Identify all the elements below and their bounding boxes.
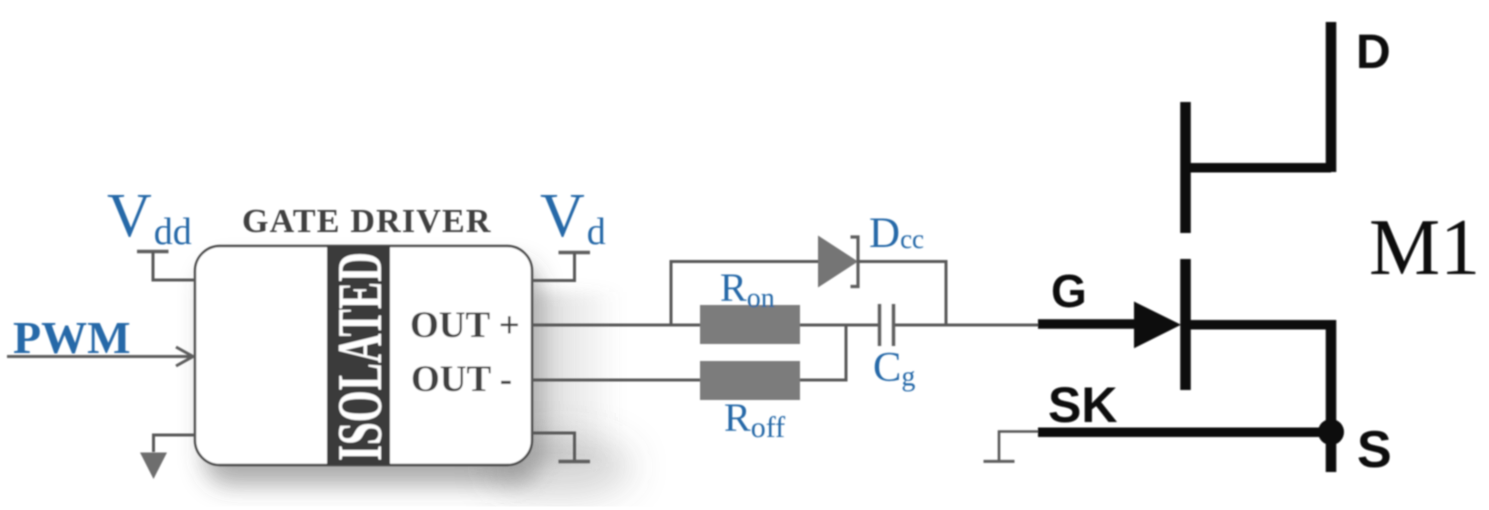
gate driver U1 body [195,246,532,465]
wire source horizontal [1181,320,1331,330]
diode Dcc cathode bracket [851,237,859,287]
svg-text:Cg: Cg [873,344,915,393]
wire SK kelvin source [1038,428,1331,438]
svg-text:OUT +: OUT + [410,305,520,346]
wire drain lead [1326,22,1337,172]
svg-text:ISOLATED: ISOLATED [324,252,395,461]
Vdd pin terminal bar [137,250,169,253]
svg-text:Vdd: Vdd [107,182,192,253]
capacitor Cg left plate [878,304,881,346]
gate driver U1 shadow right lobe [531,292,621,462]
svg-text:SK: SK [1048,377,1117,433]
gate arrowhead [1134,302,1181,349]
gate driver isolation band [327,246,390,465]
wire driver bottom-right pin [532,433,575,462]
svg-text:Vd: Vd [540,182,606,253]
wire Vdd to driver [153,252,195,281]
svg-text:S: S [1357,421,1392,479]
svg-text:OUT -: OUT - [411,359,512,400]
ground symbol [140,453,167,480]
svg-text:Roff: Roff [724,395,785,444]
svg-text:M1: M1 [1369,204,1480,292]
wire Roff up to OUT+ node [800,325,846,380]
SK pin terminal bar [984,460,1015,463]
svg-text:Ron: Ron [720,265,775,314]
mosfet M1 channel bar bottom [1180,259,1191,390]
wire drain horizontal [1181,163,1331,173]
wire SK pin stub [999,432,1038,461]
gate driver U1 shadow [204,264,539,485]
Vd pin terminal bar [559,251,591,254]
wire Ron to capacitor node [800,324,878,327]
svg-text:G: G [1051,265,1087,317]
wire capacitor to gate [895,324,1040,327]
wire PWM input [7,355,192,358]
wire OUT+ to Ron [532,324,700,327]
gate driver U1 shadow corner lobe [488,437,632,497]
wire Vd to driver [532,253,575,281]
driver bottom-right pin terminal bar [559,460,591,463]
svg-text:Dcc: Dcc [869,210,924,257]
PWM arrowhead [176,347,193,366]
resistor Ron [700,305,800,344]
wire driver ground [154,435,196,452]
svg-text:D: D [1356,26,1391,79]
mosfet M1 channel bar top [1180,102,1191,233]
wire diode to right branch [858,262,946,326]
svg-text:GATE DRIVER: GATE DRIVER [242,203,492,240]
junction dot source [1318,419,1344,445]
resistor Roff [700,361,800,400]
capacitor Cg right plate [892,304,895,346]
wire Ron node up to diode branch [671,262,818,326]
diode Dcc anode triangle [818,236,858,288]
wire gate thick [1038,319,1140,329]
wire OUT- to Roff [532,379,700,382]
wire source lead [1326,320,1337,472]
